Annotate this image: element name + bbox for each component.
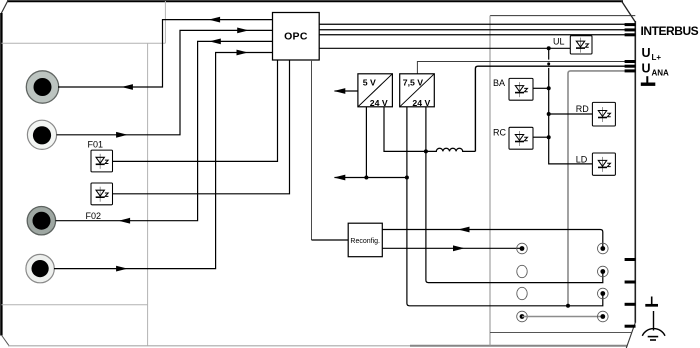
arrow on OPC pin2 wire	[237, 28, 249, 34]
bus wire 2	[319, 29, 625, 31]
arrow 24V distribution	[334, 175, 346, 181]
inductor L1	[426, 148, 476, 151]
connector socket 2	[27, 120, 56, 149]
enclosure bottom edge	[8, 345, 410, 347]
Reconfig block	[348, 223, 382, 257]
socket A	[517, 243, 528, 254]
wire connector4 to OPC pin4in	[54, 53, 273, 269]
bus wire 3	[319, 34, 625, 36]
node inductor junction	[424, 149, 428, 153]
node RC junction	[547, 135, 551, 139]
housing center divider x=490	[489, 16, 491, 346]
svg-text:ANA: ANA	[652, 68, 670, 77]
shield wire gray	[568, 71, 625, 306]
wire Reconfig to socket E	[382, 230, 603, 249]
svg-text:LD: LD	[576, 155, 588, 165]
node UL junction	[547, 46, 551, 50]
arrow on connector4 wire	[116, 266, 128, 272]
socket F	[598, 266, 609, 277]
node 24V dist junction 2	[405, 176, 409, 180]
terminal bar IB2	[625, 28, 636, 31]
enclosure top-right bevel	[622, 1, 636, 22]
connector socket 3	[27, 207, 55, 235]
ground symbol under UANA	[641, 76, 656, 84]
LED UL	[570, 36, 592, 54]
arrow to Reconfig	[458, 227, 470, 233]
wire 7.5V pin left down to socket G	[407, 107, 603, 306]
wire 5V output arrow	[335, 90, 358, 92]
arrow on OPC pin3in wire	[209, 39, 221, 45]
arrow on connector1 wire	[121, 84, 132, 90]
housing left compartment top line	[1, 42, 165, 44]
OPC block U1	[273, 13, 320, 61]
ground symbol bottom	[645, 297, 658, 306]
arrow on OPC pin4in wire	[237, 50, 249, 56]
housing inner top-right contour	[490, 15, 635, 17]
wire UL+ rail	[417, 62, 625, 75]
svg-text:RC: RC	[493, 128, 506, 138]
wire connector2 to OPC pin2	[57, 30, 273, 134]
svg-text:BA: BA	[493, 78, 505, 88]
wire LED rail vertical	[548, 48, 550, 59]
arrow 5V output	[334, 88, 346, 94]
LED F01	[91, 150, 113, 172]
wire LED rail vertical lower	[549, 68, 593, 164]
terminal bar shield	[625, 69, 636, 72]
wire 5V pin 24V-left	[365, 107, 367, 178]
svg-text:5 V: 5 V	[363, 77, 376, 87]
arrow on connector2 wire	[116, 132, 128, 138]
svg-text:F02: F02	[86, 211, 102, 221]
wire connector1 to OPC pin1	[58, 20, 273, 87]
bus wire 1	[319, 23, 625, 25]
wire BA to rail	[533, 87, 549, 89]
wire RD to rail	[549, 113, 593, 115]
converter 5V block	[358, 74, 393, 108]
wire 7.5V pin right down to socket F	[426, 107, 603, 283]
wire Reconfig to socket A	[382, 247, 522, 249]
svg-text:U: U	[642, 46, 651, 60]
terminal bar T4	[625, 325, 636, 328]
terminal bar T1	[625, 258, 636, 261]
housing left compartment divider x=148	[147, 43, 149, 345]
svg-text:UL: UL	[553, 37, 565, 47]
arrow on OPC pin1 wire	[209, 17, 221, 23]
terminal bar IB3	[625, 33, 636, 36]
connector socket 1	[26, 71, 58, 103]
node rail crossing dot	[547, 62, 550, 65]
node RD junction	[547, 112, 551, 116]
connector socket 4	[26, 254, 54, 282]
LED RC	[509, 127, 533, 149]
arrow from Reconfig	[453, 245, 465, 251]
wire connector3 to OPC pin3in	[56, 41, 273, 220]
terminal bar UANA	[625, 65, 636, 68]
terminal bar IB1	[625, 23, 636, 26]
socket D	[517, 311, 528, 322]
socket B	[517, 265, 527, 277]
LED LD	[592, 153, 615, 175]
svg-text:24 V: 24 V	[412, 98, 430, 108]
enclosure top edge	[7, 0, 623, 2]
svg-text:24 V: 24 V	[370, 98, 388, 108]
enclosure bottom-right bevel	[626, 323, 635, 348]
wire OPC bottom pin3 to Reconfig	[311, 60, 313, 240]
node BA junction	[547, 86, 551, 90]
svg-text:L+: L+	[652, 53, 662, 62]
wire 24V distribution with arrow	[335, 177, 407, 179]
svg-text:7,5 V: 7,5 V	[403, 77, 423, 87]
wire 5V pin 24V-right to inductor	[384, 107, 426, 152]
wire UANA rail	[475, 66, 625, 151]
node 24V dist junction 1	[364, 176, 368, 180]
earth ground symbol	[642, 311, 665, 340]
wire RC to rail	[533, 136, 549, 138]
LED F02	[91, 183, 113, 205]
svg-text:INTERBUS: INTERBUS	[641, 24, 699, 38]
enclosure right edge	[634, 21, 636, 323]
housing left compartment bottom line	[1, 304, 147, 306]
svg-text:RD: RD	[576, 104, 589, 114]
socket G	[598, 288, 609, 299]
converter 7.5V block	[400, 74, 435, 108]
LED RD	[592, 102, 615, 126]
LED BA	[509, 78, 533, 100]
arrow on connector3 wire	[119, 218, 131, 224]
svg-text:OPC: OPC	[284, 31, 308, 43]
wire LED F01 to OPC bottom pin1	[113, 60, 278, 161]
socket C	[517, 287, 527, 299]
enclosure bottom-left bevel	[1, 335, 9, 346]
terminal bar T2	[625, 281, 636, 284]
node shield junction	[566, 304, 570, 308]
wire OPC pin4 to UL LED	[319, 47, 570, 49]
wire LED F02 to OPC bottom pin2	[113, 60, 290, 194]
terminal bar UL+	[625, 60, 636, 63]
wire socket D to socket H gray	[522, 316, 603, 318]
socket H	[598, 311, 609, 322]
housing inner bottom-right line	[490, 332, 632, 334]
svg-text:U: U	[642, 61, 651, 75]
svg-text:Reconfig.: Reconfig.	[350, 238, 380, 245]
terminal bar T3	[625, 303, 636, 306]
socket E	[598, 243, 609, 254]
svg-text:F01: F01	[88, 140, 104, 150]
enclosure top-left bevel	[1, 1, 8, 14]
housing top-left divider x=165	[164, 1, 166, 43]
enclosure left edge	[0, 13, 2, 336]
